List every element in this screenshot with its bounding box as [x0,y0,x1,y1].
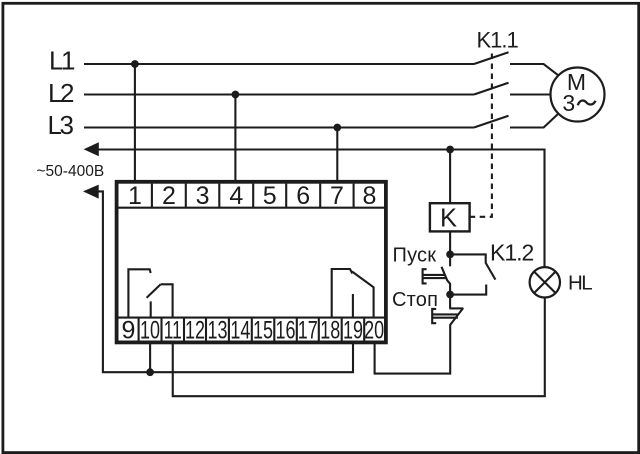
svg-text:L2: L2 [48,78,74,108]
junction on L3 [333,124,341,132]
push button Пуск NO [423,254,451,294]
wire L2 to terminal 4 [234,95,236,184]
svg-text:17: 17 [298,317,318,345]
contact K1.1 pole 2 [474,83,509,95]
svg-text:Стоп: Стоп [392,289,438,311]
svg-text:13: 13 [207,317,227,345]
wire left supply down and across bottom [97,191,354,372]
terminal strip top row [118,184,384,208]
contactor coil K [430,203,470,232]
relay contact 18-19-20 [332,269,374,318]
svg-text:K1.1: K1.1 [477,28,519,53]
terminal strip bottom row [118,318,384,342]
svg-text:~50-400В: ~50-400В [37,163,105,180]
svg-text:HL: HL [568,272,592,295]
wire L1 phase line [84,63,474,65]
wire K box to start node [449,231,451,254]
relay device outline [117,182,386,343]
svg-text:9: 9 [121,317,135,345]
wire contact to motor phase 1 [510,64,558,75]
svg-text:5: 5 [263,182,277,210]
wire L1 to terminal 1 [134,64,136,183]
wire terminal 10 down [149,343,151,372]
svg-text:4: 4 [229,182,243,210]
svg-text:14: 14 [230,317,250,345]
svg-text:7: 7 [330,182,344,210]
svg-text:K1.2: K1.2 [490,240,534,266]
wire contact to motor phase 3 [510,114,558,128]
junction on L2 [232,91,240,99]
wire coil tap to K box [449,150,451,204]
wire contact to motor phase 2 [510,93,551,95]
push button Стоп NC [375,295,464,374]
junction coil tap [446,146,454,154]
svg-text:L1: L1 [49,45,75,75]
motor M 3~ [551,68,605,122]
svg-text:6: 6 [296,182,310,210]
auxiliary contact K1.2 [450,254,495,294]
svg-text:2: 2 [162,182,176,210]
wire supply bus to lamp branch [97,150,545,268]
wire L2 phase line [84,93,474,95]
svg-text:20: 20 [364,317,384,345]
svg-text:16: 16 [276,317,296,345]
svg-text:11: 11 [164,317,182,345]
svg-text:L3: L3 [48,110,74,140]
svg-text:3: 3 [196,182,210,210]
wire L3 to terminal 7 [336,128,338,184]
svg-text:Пуск: Пуск [393,244,437,266]
wire lamp to terminal 11 [173,298,545,397]
svg-text:10: 10 [140,317,160,345]
svg-text:8: 8 [363,182,377,210]
svg-text:19: 19 [343,317,363,345]
contact K1.1 pole 3 [474,116,509,128]
supply arrow head upper [84,142,99,156]
junction stop node [446,291,454,299]
svg-text:12: 12 [185,317,205,345]
wire L3 phase line [84,126,474,128]
relay contact 9-10-11 [128,269,172,317]
junction on L1 [131,60,139,68]
supply arrow head lower [83,185,99,199]
svg-text:15: 15 [253,317,273,345]
junction bottom left [146,368,154,376]
svg-text:3: 3 [562,90,575,116]
svg-text:18: 18 [320,317,340,345]
svg-text:1: 1 [128,182,142,210]
svg-text:K: K [440,205,457,233]
mechanical link dashed K1.1 to K [470,54,492,217]
junction start node [446,251,454,259]
contact K1.1 pole 1 [474,52,509,64]
indicator lamp HL [530,267,593,297]
